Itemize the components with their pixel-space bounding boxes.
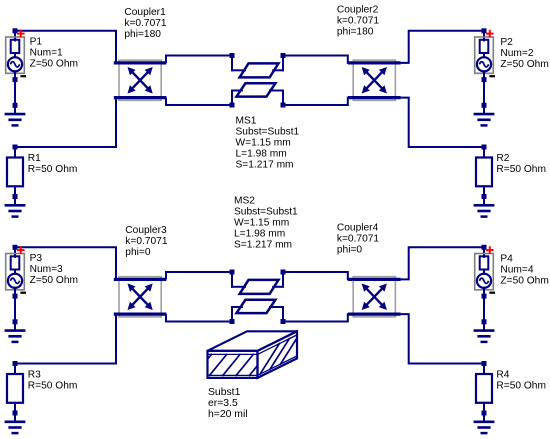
svg-text:R3: R3: [28, 370, 41, 381]
svg-text:Z=50 Ohm: Z=50 Ohm: [30, 275, 78, 286]
svg-text:R1: R1: [28, 153, 41, 164]
wire Coupler4 top-right to P4: [400, 247, 484, 279]
ground below R2: [474, 194, 495, 217]
svg-text:phi=180: phi=180: [337, 26, 374, 37]
port P1: [6, 28, 26, 82]
label Subst1: [208, 387, 248, 420]
wire Coupler3 bottom-left to R3: [15, 314, 116, 363]
wire Coupler2 top-right to P2: [400, 31, 484, 63]
svg-text:R4: R4: [496, 370, 509, 381]
resistor R2: [476, 145, 492, 197]
svg-text:P3: P3: [30, 253, 43, 264]
resistor R1: [7, 145, 23, 197]
coupled line MS1 bottom strip: [232, 83, 283, 96]
label P1: [30, 37, 78, 70]
svg-text:R=50 Ohm: R=50 Ohm: [28, 381, 78, 392]
label Coupler4: [337, 222, 380, 255]
ground below R1: [5, 194, 26, 217]
svg-text:P2: P2: [500, 37, 513, 48]
svg-text:k=0.7071: k=0.7071: [337, 15, 380, 26]
svg-text:L=1.98 mm: L=1.98 mm: [236, 148, 287, 159]
label R1: [28, 153, 78, 175]
coupler Coupler3: [114, 277, 167, 317]
ground below P3: [5, 319, 26, 342]
label MS2: [234, 195, 298, 250]
label P4: [500, 253, 548, 286]
coupled line MS1 top strip: [232, 63, 283, 77]
coupler Coupler4: [348, 277, 401, 317]
wire P2 to ground: [483, 80, 485, 106]
svg-text:er=3.5: er=3.5: [208, 398, 238, 409]
svg-text:Coupler4: Coupler4: [337, 222, 379, 233]
label Coupler1: [124, 7, 167, 40]
label Coupler3: [125, 225, 168, 258]
svg-text:Num=2: Num=2: [500, 48, 533, 59]
svg-text:L=1.98 mm: L=1.98 mm: [234, 228, 285, 239]
svg-text:phi=0: phi=0: [337, 244, 363, 255]
svg-text:S=1.217 mm: S=1.217 mm: [236, 159, 294, 170]
svg-text:R=50 Ohm: R=50 Ohm: [28, 164, 78, 175]
svg-text:P1: P1: [30, 37, 43, 48]
svg-text:W=1.15 mm: W=1.15 mm: [234, 217, 289, 228]
svg-text:Num=1: Num=1: [30, 48, 63, 59]
coupler Coupler1: [114, 60, 167, 100]
svg-text:k=0.7071: k=0.7071: [125, 236, 168, 247]
label MS1: [236, 115, 300, 170]
wire Coupler2 bottom-right to R2: [400, 98, 484, 147]
wire Coupler1 top-right to MS1: [166, 53, 235, 70]
port P3: [6, 245, 26, 299]
coupler Coupler2: [348, 60, 401, 100]
resistor R3: [7, 361, 23, 413]
label P3: [30, 253, 78, 286]
svg-text:Coupler2: Coupler2: [337, 4, 379, 15]
svg-text:Subst=Subst1: Subst=Subst1: [236, 126, 300, 137]
svg-text:S=1.217 mm: S=1.217 mm: [234, 239, 292, 250]
svg-text:Coupler1: Coupler1: [124, 7, 166, 18]
coupled line MS2 top strip: [232, 280, 283, 294]
wire MS1 to Coupler2 top-left: [281, 53, 354, 70]
wire MS1 to Coupler2 bottom-left: [281, 91, 354, 108]
svg-text:Subst1: Subst1: [208, 387, 241, 398]
svg-text:R2: R2: [496, 153, 509, 164]
svg-text:P4: P4: [500, 253, 513, 264]
label R4: [496, 370, 546, 392]
svg-text:Z=50 Ohm: Z=50 Ohm: [500, 275, 548, 286]
ground below P2: [474, 103, 495, 126]
coupled line MS2 bottom strip: [232, 300, 283, 313]
ground below R3: [5, 411, 26, 434]
wire MS2 to Coupler4 top-left: [281, 270, 354, 287]
wire P1 to Coupler1 top-left: [15, 31, 116, 63]
label R2: [496, 153, 546, 175]
wire Coupler3 bottom-right to MS2: [166, 307, 235, 324]
svg-text:phi=0: phi=0: [125, 247, 151, 258]
ground below P4: [474, 319, 495, 342]
label Coupler2: [337, 4, 380, 37]
label R3: [28, 370, 78, 392]
svg-text:Coupler3: Coupler3: [125, 225, 167, 236]
svg-text:MS2: MS2: [234, 195, 255, 206]
substrate Subst1 symbol: [208, 331, 298, 378]
ground below R4: [474, 411, 495, 434]
wire Coupler4 bottom-right to R4: [400, 314, 484, 363]
port P2: [475, 28, 495, 82]
wire Coupler1 bottom-left to R1: [15, 98, 116, 147]
wire Coupler1 bottom-right to MS1: [166, 91, 235, 108]
wire P1 to ground: [14, 80, 16, 106]
svg-text:phi=180: phi=180: [124, 29, 161, 40]
svg-text:k=0.7071: k=0.7071: [124, 18, 167, 29]
wire MS2 to Coupler4 bottom-left: [281, 307, 354, 324]
svg-text:k=0.7071: k=0.7071: [337, 233, 380, 244]
wire Coupler3 top-right to MS2: [166, 270, 235, 287]
svg-text:Num=4: Num=4: [500, 264, 533, 275]
svg-text:MS1: MS1: [236, 115, 257, 126]
svg-text:Z=50 Ohm: Z=50 Ohm: [500, 59, 548, 70]
svg-text:h=20 mil: h=20 mil: [208, 409, 248, 420]
svg-text:Z=50 Ohm: Z=50 Ohm: [30, 59, 78, 70]
wire P3 to ground: [14, 296, 16, 322]
svg-text:W=1.15 mm: W=1.15 mm: [236, 137, 291, 148]
port P4: [475, 245, 495, 299]
svg-text:R=50 Ohm: R=50 Ohm: [496, 381, 546, 392]
svg-text:R=50 Ohm: R=50 Ohm: [496, 164, 546, 175]
ground below P1: [5, 103, 26, 126]
wire P4 to ground: [483, 296, 485, 322]
wire P3 to Coupler3 top-left: [15, 247, 116, 279]
svg-text:Num=3: Num=3: [30, 264, 63, 275]
svg-text:Subst=Subst1: Subst=Subst1: [234, 206, 298, 217]
label P2: [500, 37, 548, 70]
resistor R4: [476, 361, 492, 413]
